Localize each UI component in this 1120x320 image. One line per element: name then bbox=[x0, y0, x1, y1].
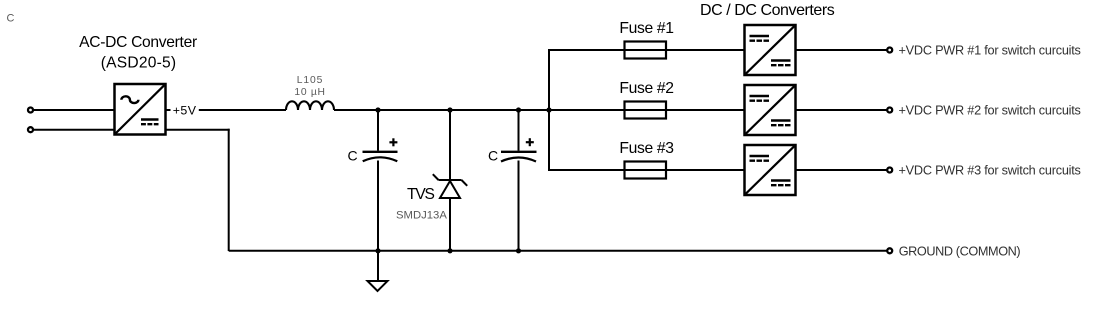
capacitor C2 bbox=[501, 138, 537, 161]
svg-text:Fuse #2: Fuse #2 bbox=[619, 80, 673, 97]
wire bus to fuse2 bbox=[549, 109, 625, 111]
svg-text:C: C bbox=[7, 12, 15, 24]
wire C1 lower lead bbox=[377, 161, 379, 252]
AC-DC converter U1 box bbox=[115, 84, 166, 135]
wire return drop bbox=[228, 129, 230, 251]
wire converter1 to terminal bbox=[796, 49, 887, 51]
wire distribution bus vertical bbox=[548, 49, 550, 171]
input terminal J1 bbox=[28, 108, 33, 113]
label AC-DC Converter title bbox=[79, 34, 197, 72]
ground symbol bbox=[368, 281, 388, 291]
wire +5V to inductor bbox=[199, 109, 286, 111]
svg-text:Fuse #3: Fuse #3 bbox=[619, 140, 674, 157]
node junction gnd-C1 bbox=[375, 248, 380, 253]
fuse F1 bbox=[625, 42, 667, 59]
node junction rail-bus bbox=[546, 107, 551, 112]
diode TVS D1 bbox=[433, 174, 467, 198]
inductor L105 bbox=[286, 101, 334, 110]
svg-text:+5V: +5V bbox=[173, 104, 197, 118]
wire bus to fuse3 bbox=[548, 169, 625, 171]
output terminal P1 bbox=[887, 48, 892, 53]
svg-text:+VDC PWR #1 for switch curcuit: +VDC PWR #1 for switch curcuits bbox=[899, 44, 1081, 58]
wire ground rail bbox=[229, 250, 887, 252]
node junction gnd-C2 bbox=[516, 248, 521, 253]
wire fuse3 to converter3 bbox=[666, 169, 745, 171]
wire main +5V rail bbox=[334, 109, 550, 111]
wire C1 upper lead bbox=[377, 110, 379, 151]
svg-text:C: C bbox=[348, 147, 358, 163]
label L105 10uH bbox=[294, 75, 325, 98]
svg-text:DC / DC Converters: DC / DC Converters bbox=[700, 2, 835, 19]
node junction rail-TVS bbox=[447, 107, 452, 112]
wire converter3 to terminal bbox=[796, 169, 887, 171]
wire input top bbox=[34, 109, 115, 111]
svg-text:(ASD20-5): (ASD20-5) bbox=[101, 54, 176, 71]
svg-text:+VDC PWR #2 for switch curcuit: +VDC PWR #2 for switch curcuits bbox=[899, 104, 1081, 118]
output terminal P2 bbox=[887, 108, 892, 113]
capacitor C1 bbox=[363, 138, 398, 161]
wire converter2 to terminal bbox=[796, 109, 887, 111]
ground terminal P4 bbox=[887, 248, 892, 253]
label +5V bbox=[166, 109, 171, 111]
wire input bottom bbox=[34, 129, 115, 131]
svg-text:TVS: TVS bbox=[407, 186, 435, 203]
DC-DC converter U4 box bbox=[745, 145, 796, 195]
svg-text:10 µH: 10 µH bbox=[294, 87, 325, 98]
svg-text:Fuse #1: Fuse #1 bbox=[619, 20, 673, 37]
fuse F2 bbox=[625, 102, 667, 119]
node junction rail-C2 bbox=[516, 107, 521, 112]
svg-text:AC-DC Converter: AC-DC Converter bbox=[79, 34, 197, 51]
svg-text:GROUND (COMMON): GROUND (COMMON) bbox=[899, 244, 1021, 258]
wire C2 lower lead bbox=[518, 161, 520, 252]
svg-text:+VDC PWR #3 for switch curcuit: +VDC PWR #3 for switch curcuits bbox=[899, 164, 1081, 178]
node junction gnd-TVS bbox=[447, 248, 452, 253]
wire TVS upper lead bbox=[449, 110, 451, 180]
svg-text:L105: L105 bbox=[297, 75, 324, 86]
wire fuse1 to converter1 bbox=[666, 49, 745, 51]
output terminal P3 bbox=[887, 168, 892, 173]
fuse F3 bbox=[625, 162, 667, 179]
wire bus to fuse1 bbox=[548, 49, 625, 51]
DC-DC converter U3 box bbox=[745, 85, 796, 135]
svg-text:SMDJ13A: SMDJ13A bbox=[396, 210, 447, 222]
wire converter return bbox=[166, 129, 230, 131]
wire TVS lower lead bbox=[449, 198, 451, 251]
svg-text:C: C bbox=[488, 147, 498, 163]
wire C2 upper lead bbox=[518, 110, 520, 151]
DC-DC converter U2 box bbox=[745, 25, 796, 75]
wire ground stub bbox=[377, 251, 379, 281]
wire fuse2 to converter2 bbox=[666, 109, 745, 111]
node junction rail-C1 bbox=[375, 107, 380, 112]
input terminal J2 bbox=[28, 127, 33, 132]
